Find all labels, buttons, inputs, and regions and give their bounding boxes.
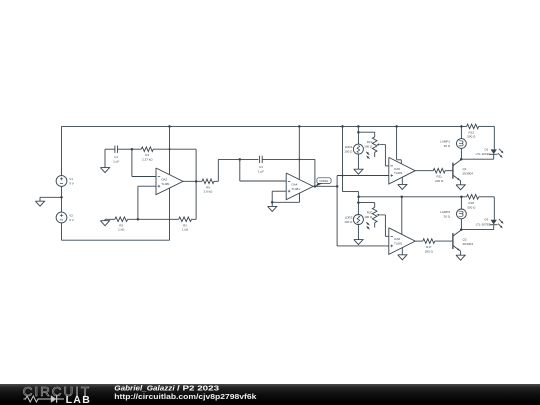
svg-text:500 Ω: 500 Ω [467, 206, 476, 210]
svg-text:D1: D1 [484, 147, 488, 151]
svg-text:2.27 kΩ: 2.27 kΩ [142, 158, 153, 162]
svg-text:2.0 kΩ: 2.0 kΩ [204, 190, 214, 194]
svg-text:LTL-307EE: LTL-307EE [476, 152, 491, 156]
svg-text:30 Ω: 30 Ω [444, 144, 451, 148]
svg-text:1 kΩ: 1 kΩ [118, 228, 125, 232]
svg-text:1 µF: 1 µF [113, 159, 119, 163]
svg-text:TL081: TL081 [394, 242, 403, 246]
svg-text:200 Ω: 200 Ω [435, 179, 444, 183]
svg-text:30 Ω: 30 Ω [444, 215, 451, 219]
svg-text:9 V: 9 V [69, 218, 74, 222]
svg-text:2N3904: 2N3904 [463, 172, 474, 176]
svg-text:TL081: TL081 [394, 171, 403, 175]
svg-text:200 Ω: 200 Ω [425, 249, 434, 253]
svg-text:R19: R19 [367, 140, 373, 144]
svg-text:NODE1: NODE1 [320, 179, 329, 183]
svg-text:1 µF: 1 µF [258, 170, 264, 174]
svg-text:http://circuitlab.com/cjv8p279: http://circuitlab.com/cjv8p2798vf6k [114, 392, 257, 401]
svg-text:1 kΩ: 1 kΩ [182, 228, 189, 232]
svg-text:LAMP3: LAMP3 [440, 210, 450, 214]
svg-text:LAMP1: LAMP1 [440, 140, 450, 144]
svg-text:9 V: 9 V [69, 182, 74, 186]
svg-text:LDR1: LDR1 [345, 145, 353, 149]
svg-text:R18: R18 [469, 201, 475, 205]
svg-text:D3: D3 [484, 218, 488, 222]
svg-text:100 Ω: 100 Ω [344, 220, 353, 224]
svg-text:100 Ω: 100 Ω [344, 149, 353, 153]
svg-text:2N3904: 2N3904 [463, 242, 474, 246]
svg-text:TL081: TL081 [161, 182, 170, 186]
svg-text:C3: C3 [259, 165, 263, 169]
svg-text:100 Ω: 100 Ω [364, 145, 373, 149]
svg-text:100 Ω: 100 Ω [364, 215, 373, 219]
svg-text:LDR3: LDR3 [345, 215, 353, 219]
svg-text:LAB: LAB [66, 395, 92, 405]
svg-text:R20: R20 [367, 211, 373, 215]
svg-text:500 Ω: 500 Ω [467, 135, 476, 139]
svg-text:Q2: Q2 [463, 237, 467, 241]
svg-text:Q1: Q1 [463, 167, 467, 171]
svg-text:LTL-307EE: LTL-307EE [476, 222, 491, 226]
svg-text:TL081: TL081 [291, 187, 300, 191]
